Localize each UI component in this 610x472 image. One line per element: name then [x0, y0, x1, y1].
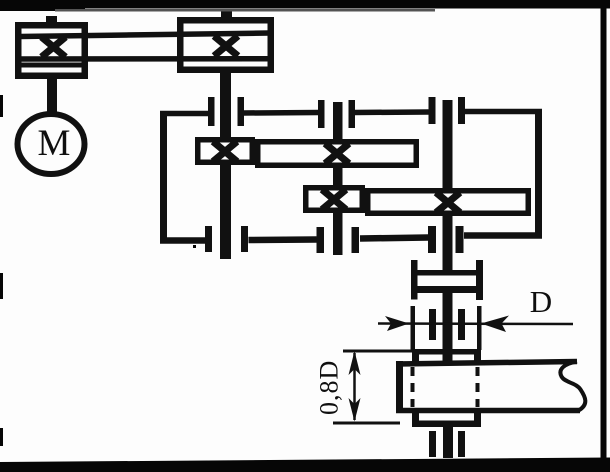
svg-text:0,8D: 0,8D [315, 360, 344, 415]
svg-text:M: M [38, 123, 71, 164]
svg-text:D: D [530, 284, 552, 319]
